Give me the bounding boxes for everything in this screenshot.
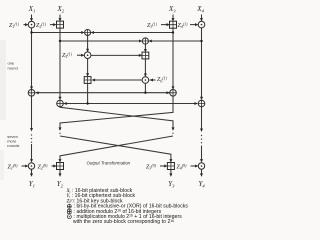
svg-text:rounds: rounds [7, 143, 19, 148]
svg-text:Output Transformation: Output Transformation [87, 161, 131, 166]
svg-text:with the zero sub-block corres: with the zero sub-block corresponding to… [73, 219, 174, 225]
svg-text:round: round [8, 66, 18, 71]
